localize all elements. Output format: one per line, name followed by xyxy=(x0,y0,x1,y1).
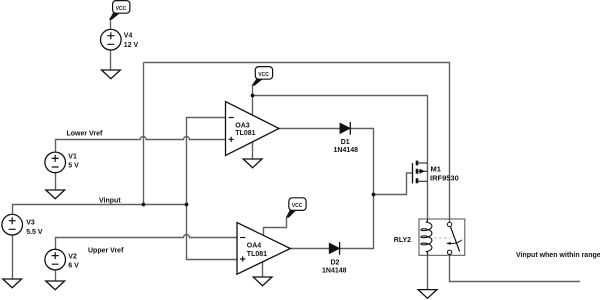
svg-text:12 V: 12 V xyxy=(124,42,139,49)
svg-text:TL081: TL081 xyxy=(235,130,255,137)
svg-text:D2: D2 xyxy=(331,260,340,267)
svg-text:M1: M1 xyxy=(431,165,441,174)
svg-text:1N4148: 1N4148 xyxy=(322,268,347,275)
svg-text:V1: V1 xyxy=(68,153,77,160)
svg-text:V2: V2 xyxy=(68,253,77,260)
svg-text:Upper Vref: Upper Vref xyxy=(88,248,124,255)
svg-text:Vinput when within range: Vinput when within range xyxy=(516,252,600,259)
svg-text:D1: D1 xyxy=(341,139,350,146)
svg-text:TL081: TL081 xyxy=(247,251,267,258)
svg-text:V3: V3 xyxy=(26,220,35,227)
svg-text:VCC: VCC xyxy=(258,72,269,78)
svg-text:5 V: 5 V xyxy=(68,162,79,169)
svg-text:VCC: VCC xyxy=(116,6,127,12)
svg-text:6 V: 6 V xyxy=(68,262,79,269)
svg-text:VCC: VCC xyxy=(292,203,303,209)
svg-text:Vinput: Vinput xyxy=(99,197,121,204)
svg-text:V4: V4 xyxy=(124,33,133,40)
svg-text:IRF9530: IRF9530 xyxy=(430,173,459,182)
svg-text:1N4148: 1N4148 xyxy=(334,147,359,154)
svg-text:RLY2: RLY2 xyxy=(394,237,411,244)
svg-text:Lower Vref: Lower Vref xyxy=(67,131,103,138)
svg-text:OA4: OA4 xyxy=(247,242,261,249)
svg-text:OA3: OA3 xyxy=(235,123,250,130)
svg-text:5.5 V: 5.5 V xyxy=(26,229,43,236)
